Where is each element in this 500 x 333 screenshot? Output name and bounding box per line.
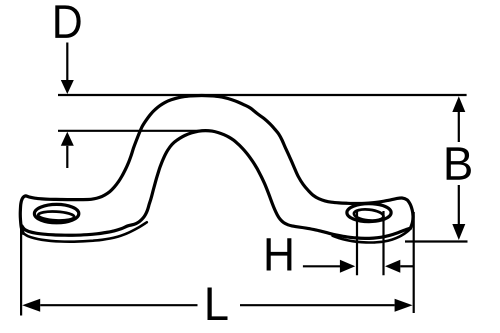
right hole inner ellipse (353, 208, 384, 222)
left foot bottom thickness edge (23, 222, 147, 241)
L left extension line (20, 227, 22, 316)
saddle strap front edge (inner arch) (22, 131, 411, 239)
H hole extension line 1 (356, 210, 358, 275)
saddle strap outer contour (back edge over arch) (20, 96, 413, 234)
dimension label D (55, 5, 80, 38)
H hole extension line 2 (382, 211, 384, 275)
H left-pointing arrow (385, 260, 400, 273)
L dimension line right arrow (240, 304, 395, 306)
B dimension up arrow (452, 96, 465, 112)
second extension line (inner arch top) (58, 130, 210, 132)
D leader line with down arrow (66, 43, 68, 82)
B dimension down arrow (458, 185, 460, 224)
dimension label B (447, 147, 471, 179)
top extension line (58, 94, 467, 96)
L right extension line (413, 212, 415, 313)
right hole outer ellipse (347, 204, 391, 222)
dimension label H (267, 238, 292, 270)
dimension label L (208, 287, 228, 320)
B bottom extension line (405, 240, 468, 242)
left hole inner ellipse (38, 211, 75, 222)
left hole outer ellipse (34, 204, 78, 222)
L dimension line left arrow (22, 299, 40, 312)
H right-pointing arrow (303, 265, 341, 267)
right foot bottom thickness edge (333, 228, 411, 242)
D up arrow below top line (61, 132, 74, 146)
